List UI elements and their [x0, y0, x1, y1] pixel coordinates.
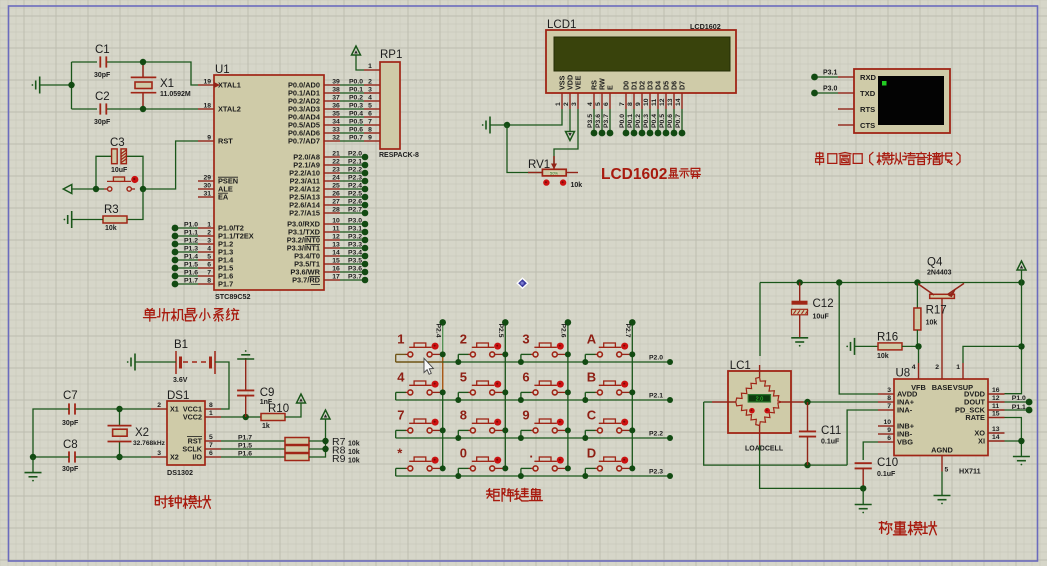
- svg-text:7: 7: [619, 102, 626, 106]
- junction P2.6: [362, 202, 369, 209]
- svg-text:4: 4: [912, 364, 916, 371]
- svg-text:P1.0: P1.0: [1012, 395, 1026, 402]
- junction P0.6: [671, 130, 678, 137]
- push button key 1: [396, 343, 441, 362]
- svg-text:P0.1: P0.1: [627, 114, 634, 128]
- junction top P2.5: [502, 319, 509, 326]
- svg-text:P2.1: P2.1: [649, 393, 663, 400]
- svg-text:P0.1: P0.1: [349, 87, 363, 94]
- wire net P0.4: [340, 116, 364, 118]
- svg-text:8: 8: [627, 102, 634, 106]
- svg-text:10k: 10k: [571, 182, 583, 189]
- wire LCD P3.6: [601, 109, 603, 133]
- junction C8 rail: [30, 454, 36, 460]
- svg-text:C11: C11: [821, 425, 841, 437]
- wire net P1.4: [175, 259, 198, 261]
- svg-text:P3.7: P3.7: [348, 274, 362, 281]
- push button key 7: [396, 419, 441, 438]
- battery B1: [176, 351, 215, 374]
- chip U1 STC89C52 body: [214, 75, 324, 290]
- serial terminal body: [854, 69, 950, 133]
- junction P1.3: [172, 249, 179, 256]
- svg-text:3.6V: 3.6V: [173, 377, 188, 384]
- resistor pack RP1 body: [380, 62, 400, 149]
- junction key 3 to column: [565, 351, 571, 357]
- wire net P2.7: [340, 212, 365, 214]
- U8 top pin stubs: [919, 363, 964, 379]
- svg-text:24: 24: [332, 175, 340, 182]
- junction end P2.1: [667, 397, 673, 403]
- wire rail to LC1: [759, 283, 761, 357]
- svg-text:5: 5: [368, 103, 372, 110]
- wire C2 to XTAL2: [107, 108, 199, 110]
- wire C10 ground: [862, 488, 864, 504]
- svg-text:29: 29: [203, 175, 211, 182]
- wire LCD P0.3: [649, 109, 651, 133]
- crystal X1: [131, 62, 157, 109]
- svg-text:30pF: 30pF: [94, 119, 111, 126]
- svg-text:9: 9: [887, 427, 891, 434]
- junction P1.4: [172, 257, 179, 264]
- svg-text:3: 3: [368, 87, 372, 94]
- svg-text:P2.1: P2.1: [348, 159, 362, 166]
- push button key A: [585, 343, 630, 362]
- capacitor C11: [799, 402, 816, 465]
- svg-text:3: 3: [207, 238, 211, 245]
- junction P0.2: [639, 130, 646, 137]
- svg-text:2.0: 2.0: [756, 397, 764, 403]
- U1 left pin stubs: [198, 85, 214, 284]
- junction key C to column: [629, 427, 635, 433]
- svg-text:P1.4: P1.4: [184, 254, 198, 261]
- svg-text:6: 6: [368, 111, 372, 118]
- svg-text:U8: U8: [896, 368, 911, 380]
- svg-text:CTS: CTS: [860, 121, 875, 130]
- svg-text:B1: B1: [174, 339, 188, 351]
- junction P3.6: [599, 130, 606, 137]
- junction row elbow: [518, 397, 524, 403]
- junction row elbow: [582, 359, 588, 365]
- svg-text:C12: C12: [813, 298, 834, 310]
- ground (clock): [25, 472, 42, 474]
- U1 left pin names: [218, 81, 254, 289]
- svg-text:1: 1: [207, 222, 211, 229]
- junction row elbow: [455, 473, 461, 479]
- svg-text:28: 28: [332, 207, 340, 214]
- wire PD_SCK: [1005, 409, 1030, 411]
- svg-text:16: 16: [992, 387, 1000, 394]
- U8 right pin numbers: [992, 387, 1000, 441]
- LC1 display: [748, 395, 770, 402]
- U8 right pin stubs: [988, 394, 1005, 441]
- svg-text:X2: X2: [135, 427, 149, 439]
- wire net P3.1: [815, 76, 839, 78]
- junction key 5 to column: [502, 389, 508, 395]
- junction key 1 to column: [440, 351, 446, 357]
- svg-text:15: 15: [992, 411, 1000, 418]
- svg-text:P1.0: P1.0: [184, 222, 198, 229]
- svg-text:34: 34: [332, 119, 340, 126]
- LC1 bridge: [712, 365, 804, 445]
- svg-text:10: 10: [883, 419, 891, 426]
- svg-text:3: 3: [157, 450, 161, 457]
- junction P0.5: [663, 130, 670, 137]
- junction row elbow: [582, 397, 588, 403]
- junction P3.6: [362, 269, 369, 276]
- resistor R8: [285, 446, 309, 453]
- junction P3.2: [362, 237, 369, 244]
- svg-text:P2.3: P2.3: [348, 175, 362, 182]
- capacitor C9: [237, 358, 254, 417]
- svg-text:P0.5: P0.5: [349, 119, 363, 126]
- power arrow (pullups): [321, 410, 330, 419]
- svg-text:D: D: [587, 446, 596, 461]
- svg-text:6: 6: [887, 435, 891, 442]
- junction row elbow: [518, 359, 524, 365]
- svg-text:4: 4: [207, 246, 211, 253]
- junction rail Q4/R17: [914, 279, 920, 285]
- junction P0.0: [623, 130, 630, 137]
- junction C10 bottom: [860, 485, 866, 491]
- DS1 left pin numbers: [157, 402, 161, 457]
- svg-text:P3.5: P3.5: [587, 114, 594, 128]
- RV1 red dot A: [543, 179, 549, 185]
- wire VSUP branch: [963, 346, 1022, 363]
- DS1 right pin numbers: [209, 402, 213, 457]
- svg-text:3: 3: [522, 332, 529, 347]
- push button key 6: [521, 381, 566, 400]
- svg-text:VCC2: VCC2: [183, 413, 202, 422]
- svg-text:U1: U1: [215, 64, 230, 76]
- svg-text:P2.7/A15: P2.7/A15: [289, 209, 320, 218]
- net arrow left: [63, 185, 72, 194]
- svg-text:12: 12: [992, 395, 1000, 402]
- wire R3 to ground: [72, 219, 103, 221]
- ground (R16): [854, 338, 856, 355]
- wire R9 out: [309, 419, 326, 457]
- wire net P1.5: [175, 267, 198, 269]
- U1 right pin stubs: [324, 85, 340, 280]
- junction P1.2: [172, 241, 179, 248]
- svg-text:HX711: HX711: [959, 467, 981, 476]
- svg-text:10k: 10k: [348, 441, 360, 448]
- svg-text:R17: R17: [926, 305, 947, 317]
- svg-text:6: 6: [522, 370, 529, 385]
- push button key 0: [458, 457, 503, 476]
- wire LC1 left: [704, 401, 712, 403]
- junction end P2.0: [667, 359, 673, 365]
- junction P3.3: [362, 245, 369, 252]
- ground (AGND): [934, 495, 951, 497]
- svg-text:XTAL1: XTAL1: [218, 81, 241, 90]
- junction top P2.4: [439, 319, 446, 326]
- svg-text:7: 7: [887, 403, 891, 410]
- svg-text:P3.7/RD: P3.7/RD: [292, 276, 321, 285]
- junction P2.5: [362, 194, 369, 201]
- junction key D to column: [629, 465, 635, 471]
- ground (reset): [71, 211, 73, 228]
- wire net P1.1: [175, 235, 198, 237]
- wire net P2.2: [340, 172, 365, 174]
- svg-text:5: 5: [945, 467, 949, 474]
- wire net P3.0: [815, 92, 839, 94]
- svg-text:7: 7: [368, 119, 372, 126]
- U8 left pin stubs: [878, 394, 894, 442]
- capacitor C3 (polarized): [112, 149, 127, 164]
- junction row elbow: [518, 435, 524, 441]
- wire C7 left rail: [33, 409, 69, 457]
- svg-text:50%: 50%: [550, 170, 558, 175]
- push button key D: [585, 457, 630, 476]
- push button key 2: [458, 343, 503, 362]
- capacitor C7: [68, 403, 70, 414]
- wire ground stub: [40, 84, 72, 86]
- svg-text:36: 36: [332, 103, 340, 110]
- push button key 9: [521, 419, 566, 438]
- wire X1 row: [76, 408, 120, 410]
- overline EA: [218, 192, 228, 194]
- svg-text:P0.6: P0.6: [349, 127, 363, 134]
- svg-text:6: 6: [207, 262, 211, 269]
- svg-text:LC1: LC1: [730, 360, 751, 372]
- svg-text:9: 9: [522, 408, 529, 423]
- svg-text:30pF: 30pF: [62, 420, 79, 427]
- module title: serial window (simulated voice broadcast): [816, 152, 823, 154]
- svg-text:BASE: BASE: [932, 383, 953, 392]
- svg-text:37: 37: [332, 95, 340, 102]
- svg-text:P2.4: P2.4: [434, 324, 441, 338]
- wire net P3.5: [340, 263, 365, 265]
- ground (XI): [1013, 456, 1030, 458]
- LC1 red dot B: [764, 408, 770, 414]
- wire C3 left leg: [96, 156, 111, 189]
- LC1 red dot A: [749, 408, 755, 414]
- svg-text:8: 8: [368, 127, 372, 134]
- junction P2.4: [362, 186, 369, 193]
- RP1 pin numbers: [368, 63, 372, 142]
- svg-text:C8: C8: [63, 439, 78, 451]
- junction P2.2: [362, 170, 369, 177]
- svg-text:10k: 10k: [877, 353, 889, 360]
- power arrow down VDD: [566, 132, 575, 141]
- svg-text:27: 27: [332, 199, 340, 206]
- svg-text:P3.1: P3.1: [348, 226, 362, 233]
- svg-text:P1.3: P1.3: [184, 246, 198, 253]
- svg-text:14: 14: [332, 250, 340, 257]
- RV1 red dot B: [560, 179, 566, 185]
- ground (crystal): [39, 77, 41, 94]
- svg-text:10k: 10k: [926, 320, 938, 327]
- svg-text:P1.1: P1.1: [1012, 404, 1026, 411]
- svg-text:23: 23: [332, 167, 340, 174]
- wire net P3.7: [340, 279, 365, 281]
- svg-text:4: 4: [397, 370, 405, 385]
- svg-text:P0.0: P0.0: [349, 79, 363, 86]
- svg-text:9: 9: [635, 102, 642, 106]
- svg-text:R9: R9: [332, 453, 346, 465]
- U1 right pin numbers: [332, 79, 340, 281]
- wire net P0.6: [340, 132, 364, 134]
- junction P1.1: [1026, 407, 1033, 414]
- junction VCC2/C9: [243, 414, 249, 420]
- svg-text:P3.6: P3.6: [595, 114, 602, 128]
- svg-text:RATE: RATE: [965, 413, 985, 422]
- junction C11 bottom: [804, 462, 810, 468]
- junction P1.1: [172, 233, 179, 240]
- ground (LCD): [489, 117, 491, 134]
- svg-text:P1.6: P1.6: [238, 451, 252, 458]
- junction button right: [140, 186, 146, 192]
- junction key 7 to column: [440, 427, 446, 433]
- svg-text:P0.5: P0.5: [659, 114, 666, 128]
- junction key * to column: [440, 465, 446, 471]
- overline PSEN: [218, 176, 238, 178]
- svg-text:3: 3: [887, 387, 891, 394]
- svg-text:RP1: RP1: [380, 49, 402, 61]
- wire net P2.3: [340, 180, 365, 182]
- svg-text:P0.4: P0.4: [349, 111, 363, 118]
- capacitor C12 (polarized): [792, 283, 809, 338]
- wire RATE/XI: [1005, 418, 1022, 457]
- DS1 right pin stubs: [205, 409, 221, 457]
- svg-text:C7: C7: [63, 390, 78, 402]
- wire RP1 pin1: [356, 55, 364, 70]
- svg-text:LCD1: LCD1: [547, 19, 576, 31]
- svg-text:32: 32: [332, 135, 340, 142]
- wire bottom bus: [704, 402, 847, 465]
- power arrow (weigh): [1017, 261, 1026, 270]
- junction X2 top: [116, 406, 122, 412]
- junction end P2.3: [667, 473, 673, 479]
- junction key 4 to column: [440, 389, 446, 395]
- svg-text:Q4: Q4: [927, 257, 943, 269]
- junction P2.3: [362, 178, 369, 185]
- junction P3.1: [362, 229, 369, 236]
- chip U8 HX711 body: [894, 379, 988, 456]
- overline DS1 RST: [187, 436, 202, 438]
- push button key 8: [458, 419, 503, 438]
- junction key 0 to column: [502, 465, 508, 471]
- svg-text:10: 10: [332, 218, 340, 225]
- svg-text:B: B: [587, 370, 596, 385]
- wire X2 bottom: [119, 442, 121, 458]
- wire LCD P3.5: [593, 109, 595, 133]
- LCD1 body: [546, 30, 736, 93]
- junction VSS/ground: [504, 122, 510, 128]
- U8 top pin names: [911, 383, 973, 392]
- crystal X2: [108, 426, 132, 442]
- svg-text:1: 1: [397, 332, 404, 347]
- wire R3 branch: [127, 189, 143, 220]
- svg-text:P0.6: P0.6: [667, 114, 674, 128]
- reset button red dot: [131, 176, 138, 183]
- svg-text:P2.5: P2.5: [497, 324, 504, 338]
- junction row elbow: [455, 359, 461, 365]
- svg-text:17: 17: [332, 274, 340, 281]
- LCD pin names: [558, 75, 687, 90]
- svg-text:26: 26: [332, 191, 340, 198]
- wire AVDD: [839, 283, 878, 395]
- junction row elbow: [455, 397, 461, 403]
- svg-text:10k: 10k: [105, 225, 117, 232]
- junction R7: [322, 438, 328, 444]
- serial screen: [878, 76, 944, 125]
- svg-text:13: 13: [667, 98, 674, 106]
- reset button: [104, 177, 135, 191]
- junction X1 top: [140, 59, 146, 65]
- svg-text:3: 3: [571, 102, 578, 106]
- svg-text:5: 5: [207, 254, 211, 261]
- junction P2.1: [362, 162, 369, 169]
- svg-text:19: 19: [203, 79, 211, 86]
- svg-text:8: 8: [209, 402, 213, 409]
- wire net P3.3: [340, 247, 365, 249]
- junction end P2.2: [667, 435, 673, 441]
- svg-text:5: 5: [209, 434, 213, 441]
- wire row P2.3: [396, 475, 670, 477]
- svg-text:10k: 10k: [348, 449, 360, 456]
- power arrow (R10): [297, 394, 306, 403]
- wire VBG: [863, 442, 878, 460]
- svg-text:R3: R3: [104, 204, 119, 216]
- capacitor C1: [99, 56, 101, 67]
- svg-text:P3.6: P3.6: [348, 266, 362, 273]
- svg-text:X1: X1: [160, 78, 174, 90]
- junction P3.5: [591, 130, 598, 137]
- wire B1 left: [135, 361, 176, 363]
- wire DS1 P1.6: [221, 456, 285, 458]
- svg-text:2: 2: [563, 102, 570, 106]
- svg-text:13: 13: [332, 242, 340, 249]
- junction row elbow: [582, 473, 588, 479]
- svg-text:8: 8: [207, 278, 211, 285]
- junction INA+/C11: [804, 399, 810, 405]
- RP1 pin stubs: [364, 70, 380, 141]
- svg-text:21: 21: [332, 151, 340, 158]
- svg-text:7: 7: [207, 270, 211, 277]
- wire net P2.0: [340, 156, 365, 158]
- wire R7 out: [309, 440, 326, 442]
- svg-text:R10: R10: [268, 403, 289, 415]
- svg-text:P0.2: P0.2: [349, 95, 363, 102]
- svg-text:2: 2: [460, 332, 467, 347]
- wire VSS to ground: [507, 109, 562, 125]
- junction P3.0: [811, 90, 818, 97]
- svg-text:11: 11: [332, 226, 339, 233]
- svg-text:0: 0: [460, 446, 467, 461]
- svg-text:1: 1: [368, 63, 372, 70]
- junction row elbow: [455, 435, 461, 441]
- svg-text:1k: 1k: [262, 423, 270, 430]
- loadcell LC1 body: [728, 371, 791, 433]
- resistor R9: [285, 454, 309, 461]
- wire net P1.6: [175, 275, 198, 277]
- svg-text:11: 11: [992, 403, 999, 410]
- svg-text:P1.7: P1.7: [238, 435, 252, 442]
- svg-text:P0.7: P0.7: [675, 114, 682, 128]
- svg-text:P0.7: P0.7: [349, 135, 363, 142]
- junction P3.7: [362, 277, 369, 284]
- XTAL1 clock arrow: [214, 82, 220, 88]
- svg-text:P3.0: P3.0: [823, 86, 838, 93]
- junction key . to column: [565, 465, 571, 471]
- svg-text:P2.0: P2.0: [649, 355, 663, 362]
- wire net P1.0: [175, 227, 198, 229]
- svg-text:P3.1: P3.1: [823, 70, 838, 77]
- svg-text:12: 12: [659, 98, 666, 106]
- wire LCD P3.7: [609, 109, 611, 133]
- svg-text:XI: XI: [978, 437, 985, 446]
